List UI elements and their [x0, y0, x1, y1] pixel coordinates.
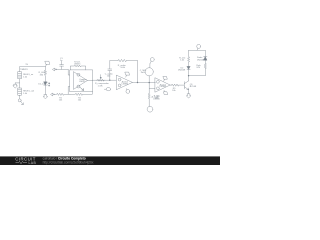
wire C1 to op-amp input rail	[62, 68, 69, 70]
relay coil resistor	[204, 60, 206, 63]
relay contact RELE1 box 2	[18, 88, 22, 95]
discharge arrow inside U1	[80, 87, 84, 90]
potentiometer R_comparator	[96, 79, 105, 81]
resistor R5	[172, 84, 179, 86]
svg-text:330: 330	[40, 75, 44, 77]
op-amp U1 box	[70, 70, 93, 92]
net flag below op-amp A3	[164, 92, 168, 95]
svg-text:104k: 104k	[120, 67, 125, 69]
ground hook bottom left	[21, 102, 24, 105]
wire op-amp2 out	[132, 82, 155, 84]
op-amp A3 minus stub	[149, 87, 155, 89]
ground arrow left of relay chain	[15, 82, 19, 84]
svg-text:1.0k: 1.0k	[23, 77, 28, 79]
svg-text:1.37k: 1.37k	[98, 85, 104, 87]
svg-text:10k: 10k	[172, 90, 176, 92]
op-amp U1 triangle	[73, 72, 87, 90]
wire below box2	[19, 95, 21, 99]
resistor R1 bottom	[54, 93, 70, 95]
resistor R2 bottom	[70, 93, 92, 95]
svg-text:10k: 10k	[78, 100, 82, 102]
svg-text:TIMER1: TIMER1	[20, 69, 28, 71]
capacitor C_audio branch	[109, 61, 111, 69]
diode D2 on collector line	[187, 66, 190, 69]
diode D_rele	[204, 50, 206, 56]
ground circle below op-amp A2	[125, 89, 128, 90]
svg-text:10u: 10u	[107, 76, 111, 78]
bottom connector relay	[189, 75, 206, 77]
transistor Q1	[183, 82, 185, 89]
wire	[44, 76, 46, 82]
net flag above op-amp A3	[163, 76, 167, 79]
svg-text:LAB: LAB	[29, 161, 37, 165]
svg-text:BC548: BC548	[190, 86, 197, 88]
op-amp output wire	[87, 80, 92, 82]
wire top-left horizontal	[20, 66, 46, 68]
ground arrow below LED	[43, 95, 48, 99]
svg-text:LM311: LM311	[79, 81, 86, 83]
resistor feedback above timer	[70, 65, 85, 70]
svg-text:1.0k: 1.0k	[23, 93, 28, 95]
resistor R_MIC vertical	[148, 83, 150, 94]
supply flag 5V top	[45, 64, 46, 67]
svg-text:LM386: LM386	[160, 86, 167, 88]
wire left vertical	[19, 67, 21, 72]
bottom rail ground arrow	[51, 93, 55, 96]
svg-text:5V: 5V	[26, 64, 29, 66]
wire op-amp1 out to op-amp2	[93, 79, 117, 81]
microphone MIC1	[145, 68, 153, 76]
wire between relay boxes	[19, 79, 21, 88]
wire to C1	[57, 68, 62, 70]
wire out to R5	[170, 84, 172, 86]
svg-text:10k: 10k	[59, 100, 63, 102]
resistor R_LED	[44, 70, 46, 75]
node circle bottom left	[18, 99, 21, 102]
mic supply flag	[150, 58, 154, 62]
svg-text:http://circuitlab.com/c/2e99bu: http://circuitlab.com/c/2e99buh4j26x	[43, 161, 94, 165]
net flag above op-amp A2	[125, 72, 130, 75]
svg-text:24V: 24V	[196, 67, 200, 69]
svg-text:1N4148: 1N4148	[178, 70, 186, 72]
ground bubble below pot	[104, 88, 106, 90]
LED D1	[44, 82, 47, 85]
svg-text:9mV: 9mV	[141, 72, 146, 74]
op-amp A3 triangle	[155, 78, 170, 92]
svg-text:LM386: LM386	[153, 98, 160, 100]
resistor R_rele vertical	[188, 56, 190, 62]
collector wire up	[188, 70, 190, 81]
ground arrow left of C1	[53, 68, 57, 71]
svg-text:1.0k: 1.0k	[180, 60, 185, 62]
rail stubs to op-amp	[91, 92, 93, 95]
wire R_LED vertical	[44, 67, 46, 71]
junction dots	[137, 82, 138, 83]
footer bar	[0, 156, 220, 165]
op-amp A2 triangle	[116, 75, 132, 89]
supply bubble	[197, 44, 201, 48]
top rail	[189, 49, 206, 51]
resistor R_audio feedback top	[110, 60, 118, 62]
ground circle below mic divider	[147, 106, 153, 112]
svg-text:LM386: LM386	[122, 84, 129, 86]
svg-text:1N4148: 1N4148	[197, 59, 205, 61]
wire	[44, 85, 46, 94]
emitter to ground	[188, 90, 190, 94]
svg-text:D1_led: D1_led	[38, 84, 45, 86]
relay contact RELE1 box 1	[18, 72, 22, 79]
